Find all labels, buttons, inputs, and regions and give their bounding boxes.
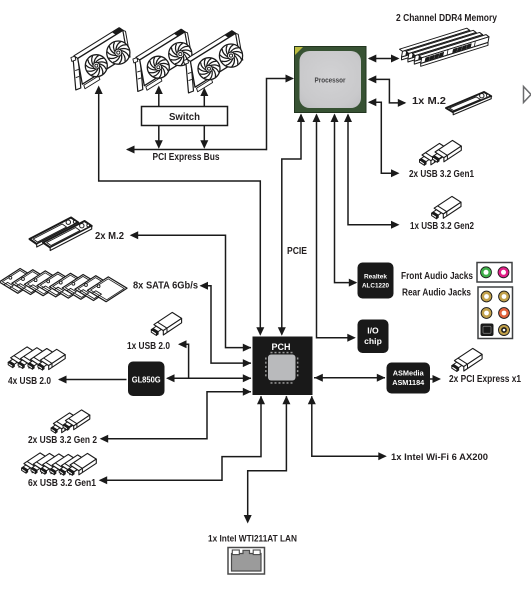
svg-text:1x USB 2.0: 1x USB 2.0 bbox=[127, 341, 170, 352]
svg-text:4x USB 2.0: 4x USB 2.0 bbox=[8, 376, 51, 387]
arrowhead to 2x USB 3.2 Gen 2 label bbox=[100, 435, 109, 443]
arrowhead into processor USB side bbox=[368, 98, 377, 106]
arrowhead onto bus left bbox=[155, 140, 163, 149]
wire PCH bottom 3 to Wi-Fi bbox=[312, 396, 386, 456]
arrowhead to 1x M.2 label bbox=[398, 99, 407, 107]
LAN port icon bbox=[228, 548, 265, 575]
wire processor PCIE to PCH top bbox=[282, 115, 301, 335]
4x USB 2.0 icons bbox=[8, 347, 65, 370]
svg-text:2x PCI Express x1: 2x PCI Express x1 bbox=[449, 374, 521, 385]
svg-text:1x M.2: 1x M.2 bbox=[412, 96, 447, 107]
arrowhead into PCH bottom 2 bbox=[282, 396, 290, 405]
arrowhead onto bus right bbox=[200, 140, 208, 149]
arrowhead to 6x USB 3.2 Gen1 label bbox=[99, 476, 108, 484]
arrowhead into PCH left 2 bbox=[243, 359, 252, 367]
arrowhead to 4x USB 2.0 label bbox=[58, 376, 67, 384]
label 6x USB 3.2 Gen1 bbox=[28, 478, 96, 489]
front audio jacks panel bbox=[477, 263, 512, 283]
label PCIE bbox=[287, 246, 307, 257]
wire switch down left bbox=[158, 126, 160, 148]
label 2 Channel DDR4 Memory bbox=[396, 13, 497, 24]
svg-text:ALC1220: ALC1220 bbox=[362, 283, 389, 290]
label 1x USB 3.2 Gen2 bbox=[410, 221, 474, 232]
svg-text:2x USB 3.2 Gen1: 2x USB 3.2 Gen1 bbox=[409, 169, 474, 180]
arrowhead into Realtek bbox=[349, 279, 358, 287]
label 2x PCI Express x1 bbox=[449, 374, 521, 385]
arrowhead into processor bottom 3 bbox=[331, 114, 339, 123]
arrowhead into processor bottom 4 bbox=[344, 114, 352, 123]
ASMedia ASM1184 chip bbox=[387, 363, 431, 394]
svg-text:ASMedia: ASMedia bbox=[393, 369, 425, 378]
wire bus to processor left bbox=[267, 79, 293, 151]
wire processor to 1x M.2 bbox=[369, 79, 405, 103]
label 1x Intel WTI211AT LAN bbox=[208, 534, 297, 544]
svg-text:ASM1184: ASM1184 bbox=[392, 378, 425, 387]
wire PCH bottom 2 to LAN bbox=[248, 396, 287, 522]
label 2x M.2 bbox=[95, 231, 125, 242]
wire PCH bottom 1 to 6x USB 3.2 Gen1 bbox=[100, 396, 261, 480]
arrowhead to Wi-Fi label bbox=[378, 452, 387, 460]
label 1x M.2 bbox=[412, 96, 447, 107]
arrowhead into GL850G right bbox=[166, 374, 175, 382]
arrowhead to 1x USB 2.0 label bbox=[178, 340, 187, 348]
2x USB 3.2 Gen 2 icons bbox=[51, 410, 90, 433]
svg-text:Realtek: Realtek bbox=[364, 274, 387, 281]
arrowhead into processor DDR4 side bbox=[368, 55, 377, 63]
2x M.2 icons left bbox=[30, 218, 92, 251]
wire GL850G to PCH left 3 bbox=[167, 377, 251, 379]
wire 8x SATA to PCH left 2 bbox=[201, 286, 251, 363]
wire 4x USB 2.0 to GL850G bbox=[59, 379, 126, 381]
arrowhead into processor M.2 side bbox=[368, 75, 377, 83]
label 4x USB 2.0 bbox=[8, 376, 51, 387]
label Front Audio Jacks bbox=[401, 271, 473, 282]
wire processor to DDR4 bbox=[369, 58, 398, 60]
arrowhead to 8x SATA label bbox=[200, 282, 209, 290]
arrowhead to 1x USB 3.2 Gen2 label bbox=[391, 221, 400, 229]
arrowhead into GPU1 bbox=[95, 86, 103, 95]
arrowhead into processor bottom 2 bbox=[313, 114, 321, 123]
arrowhead into PCH left 3 bbox=[243, 374, 252, 382]
svg-text:1x Intel Wi-Fi 6 AX200: 1x Intel Wi-Fi 6 AX200 bbox=[391, 452, 488, 462]
label PCI Express Bus bbox=[153, 152, 220, 163]
arrowhead to 2x PCI Express x1 label bbox=[433, 375, 442, 383]
I/O chip bbox=[358, 320, 389, 354]
GL850G chip bbox=[128, 362, 165, 397]
wire 2x M.2 to PCH left 1 bbox=[131, 235, 251, 347]
wire processor to 1x USB 3.2 Gen2 bbox=[348, 115, 398, 225]
1x USB 2.0 icon bbox=[151, 312, 181, 335]
arrowhead to DDR4 memory bbox=[391, 55, 400, 63]
switch box bbox=[142, 107, 228, 126]
arrowhead into processor bottom 1 bbox=[297, 114, 305, 123]
wire GPU1 to PCH top bbox=[99, 94, 261, 335]
wire processor to 2x USB 3.2 Gen1 bbox=[369, 102, 398, 173]
2x PCI Express x1 icon bbox=[452, 348, 482, 371]
arrowhead into GPU3 bbox=[200, 88, 208, 97]
svg-text:Front Audio Jacks: Front Audio Jacks bbox=[401, 271, 473, 282]
2x USB 3.2 Gen1 icons bbox=[420, 140, 462, 165]
arrowhead to 2x M.2 label bbox=[130, 231, 139, 239]
wire switch down right bbox=[203, 126, 205, 148]
wire PCI Express Bus bbox=[128, 149, 267, 151]
DDR4 memory modules bbox=[400, 28, 490, 66]
svg-text:6x USB 3.2 Gen1: 6x USB 3.2 Gen1 bbox=[28, 478, 96, 489]
PCH chip bbox=[253, 337, 313, 396]
label 1x USB 2.0 bbox=[127, 341, 170, 352]
arrowhead into I/O chip bbox=[347, 334, 356, 342]
graphics card GPU2 bbox=[133, 29, 192, 91]
svg-text:1x Intel WTI211AT LAN: 1x Intel WTI211AT LAN bbox=[208, 534, 297, 544]
graphics card GPU3 bbox=[184, 31, 243, 93]
1x USB 3.2 Gen2 icon bbox=[432, 196, 461, 218]
svg-text:2 Channel DDR4 Memory: 2 Channel DDR4 Memory bbox=[396, 13, 497, 24]
arrowhead PCI Express Bus left bbox=[126, 146, 135, 154]
svg-text:GL850G: GL850G bbox=[132, 376, 161, 385]
wire PCH to ASMedia bbox=[314, 377, 385, 379]
M.2 SSD icon top right bbox=[446, 92, 491, 115]
wire PCH left 4 to 2x USB 3.2 Gen 2 bbox=[101, 392, 251, 439]
arrowhead into ASMedia left bbox=[377, 374, 386, 382]
wire ASMedia to 2x PCI Express x1 bbox=[430, 378, 440, 380]
label Rear Audio Jacks bbox=[402, 288, 471, 299]
svg-text:8x SATA 6Gb/s: 8x SATA 6Gb/s bbox=[133, 281, 199, 292]
arrowhead into processor left bbox=[286, 75, 295, 83]
svg-text:Switch: Switch bbox=[169, 112, 200, 123]
svg-text:PCIE: PCIE bbox=[287, 246, 307, 257]
svg-text:2x M.2: 2x M.2 bbox=[95, 231, 125, 242]
label 2x USB 3.2 Gen1 bbox=[409, 169, 474, 180]
svg-text:1x USB 3.2 Gen2: 1x USB 3.2 Gen2 bbox=[410, 221, 474, 232]
svg-text:PCH: PCH bbox=[272, 342, 291, 352]
arrowhead into GPU2 bbox=[155, 86, 163, 95]
arrowhead to 2x USB 3.2 Gen1 label bbox=[391, 169, 400, 177]
arrowhead into PCH bottom 3 bbox=[308, 396, 316, 405]
page cursor triangle right edge bbox=[524, 87, 531, 103]
arrowhead into PCH left 1 bbox=[243, 344, 252, 352]
arrowhead into PCH left 4 bbox=[243, 388, 252, 396]
graphics card GPU1 bbox=[71, 28, 130, 90]
arrowhead into PCH bottom 1 bbox=[257, 396, 265, 405]
svg-text:Processor: Processor bbox=[315, 76, 346, 85]
svg-text:I/O: I/O bbox=[367, 326, 379, 336]
label 2x USB 3.2 Gen 2 bbox=[28, 435, 97, 446]
Realtek ALC1220 chip bbox=[358, 263, 394, 299]
arrowhead into PCH top 2 bbox=[278, 327, 286, 336]
wire switch to GPU3 bbox=[203, 96, 205, 107]
arrowhead to LAN label bbox=[244, 515, 252, 524]
6x USB 3.2 Gen1 icons bbox=[22, 453, 97, 475]
wire 1x USB 2.0 tap bbox=[179, 344, 188, 378]
wire processor to I/O chip bbox=[317, 115, 355, 338]
arrowhead into PCH top 1 bbox=[256, 327, 264, 336]
wire switch to GPU2 bbox=[158, 94, 160, 107]
svg-text:Rear Audio Jacks: Rear Audio Jacks bbox=[402, 288, 471, 299]
wire processor to Realtek bbox=[335, 115, 357, 283]
svg-text:chip: chip bbox=[364, 336, 382, 346]
label 8x SATA 6Gb/s bbox=[133, 281, 199, 292]
processor U1 bbox=[295, 47, 367, 113]
svg-text:PCI Express Bus: PCI Express Bus bbox=[153, 152, 220, 163]
8x SATA icons bbox=[0, 269, 127, 302]
rear audio jacks panel bbox=[478, 287, 513, 339]
arrowhead into PCH right bbox=[314, 374, 323, 382]
svg-text:2x USB 3.2 Gen 2: 2x USB 3.2 Gen 2 bbox=[28, 435, 97, 446]
label 1x Intel Wi-Fi 6 AX200 bbox=[391, 452, 488, 462]
